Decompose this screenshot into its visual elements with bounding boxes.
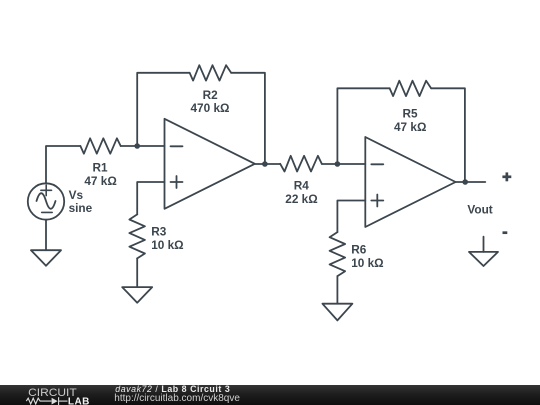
node A junction R1/R2/U1 bbox=[134, 143, 140, 149]
label R2 value bbox=[191, 88, 230, 115]
wire U1 non-inverting input down to R3 bbox=[137, 182, 164, 214]
label output minus bbox=[503, 231, 508, 234]
svg-text:R2: R2 bbox=[203, 88, 219, 102]
wire R2 to output node bbox=[231, 73, 265, 164]
svg-text:Vs: Vs bbox=[69, 188, 84, 202]
ground reference near Vout bbox=[469, 237, 498, 266]
wire feedback left leg node to R2 bbox=[137, 73, 189, 146]
wire R1 to U1 inverting input bbox=[121, 145, 165, 147]
wire R6 to ground bbox=[336, 276, 338, 304]
wire Vs bottom to ground bbox=[45, 220, 47, 251]
label R1 value bbox=[84, 161, 116, 189]
CircuitLab logo bbox=[0, 385, 110, 405]
label VS name bbox=[69, 188, 93, 215]
svg-text:R3: R3 bbox=[151, 224, 167, 238]
svg-text:R4: R4 bbox=[294, 179, 310, 193]
ground below R6 bbox=[322, 304, 352, 321]
node B junction U1 output bbox=[262, 161, 268, 167]
voltage source VS bbox=[28, 183, 64, 219]
svg-text:R1: R1 bbox=[92, 161, 108, 175]
resistor R4 bbox=[280, 156, 322, 172]
resistor R3 bbox=[129, 214, 145, 258]
wire R5 to output node bbox=[431, 88, 465, 182]
svg-text:sine: sine bbox=[69, 201, 93, 215]
wire U1 output to R4 bbox=[255, 163, 280, 165]
svg-text:470 kΩ: 470 kΩ bbox=[191, 101, 230, 115]
svg-text:47 kΩ: 47 kΩ bbox=[394, 120, 426, 134]
ground below R3 bbox=[122, 287, 152, 303]
svg-text:LAB: LAB bbox=[68, 396, 90, 405]
resistor R2 bbox=[190, 65, 232, 80]
label R6 value bbox=[351, 242, 383, 270]
wire U2 output stub bbox=[456, 181, 486, 183]
wire U2 non-inverting input down to R6 bbox=[337, 201, 365, 233]
footer bar bbox=[0, 385, 540, 405]
svg-text:R5: R5 bbox=[402, 106, 418, 120]
resistor R5 bbox=[390, 81, 432, 96]
footer title text bbox=[115, 384, 230, 394]
svg-text:R6: R6 bbox=[351, 242, 367, 256]
label R4 value bbox=[285, 179, 317, 207]
label R3 value bbox=[151, 224, 183, 252]
wire R3 to ground bbox=[136, 258, 138, 287]
ground below VS bbox=[31, 250, 61, 266]
resistor R1 bbox=[80, 138, 120, 153]
svg-text:Vout: Vout bbox=[467, 203, 492, 217]
svg-text:22 kΩ: 22 kΩ bbox=[285, 192, 317, 206]
footer url text bbox=[114, 393, 240, 404]
wire Vs top to R1 bbox=[46, 146, 80, 183]
wire R4 to U2 inverting input bbox=[322, 163, 366, 165]
op-amp U2 bbox=[365, 137, 455, 227]
label output plus bbox=[502, 172, 511, 181]
svg-text:47 kΩ: 47 kΩ bbox=[84, 174, 116, 188]
op-amp U1 bbox=[165, 119, 255, 209]
label Vout bbox=[467, 203, 492, 217]
label R5 value bbox=[394, 106, 426, 134]
node C junction R4/R5/U2 bbox=[335, 161, 341, 167]
node D junction U2 output bbox=[462, 179, 468, 185]
wire feedback2 left leg node to R5 bbox=[337, 88, 389, 164]
svg-text:10 kΩ: 10 kΩ bbox=[151, 238, 183, 252]
resistor R6 bbox=[330, 232, 346, 276]
svg-text:10 kΩ: 10 kΩ bbox=[351, 256, 383, 270]
